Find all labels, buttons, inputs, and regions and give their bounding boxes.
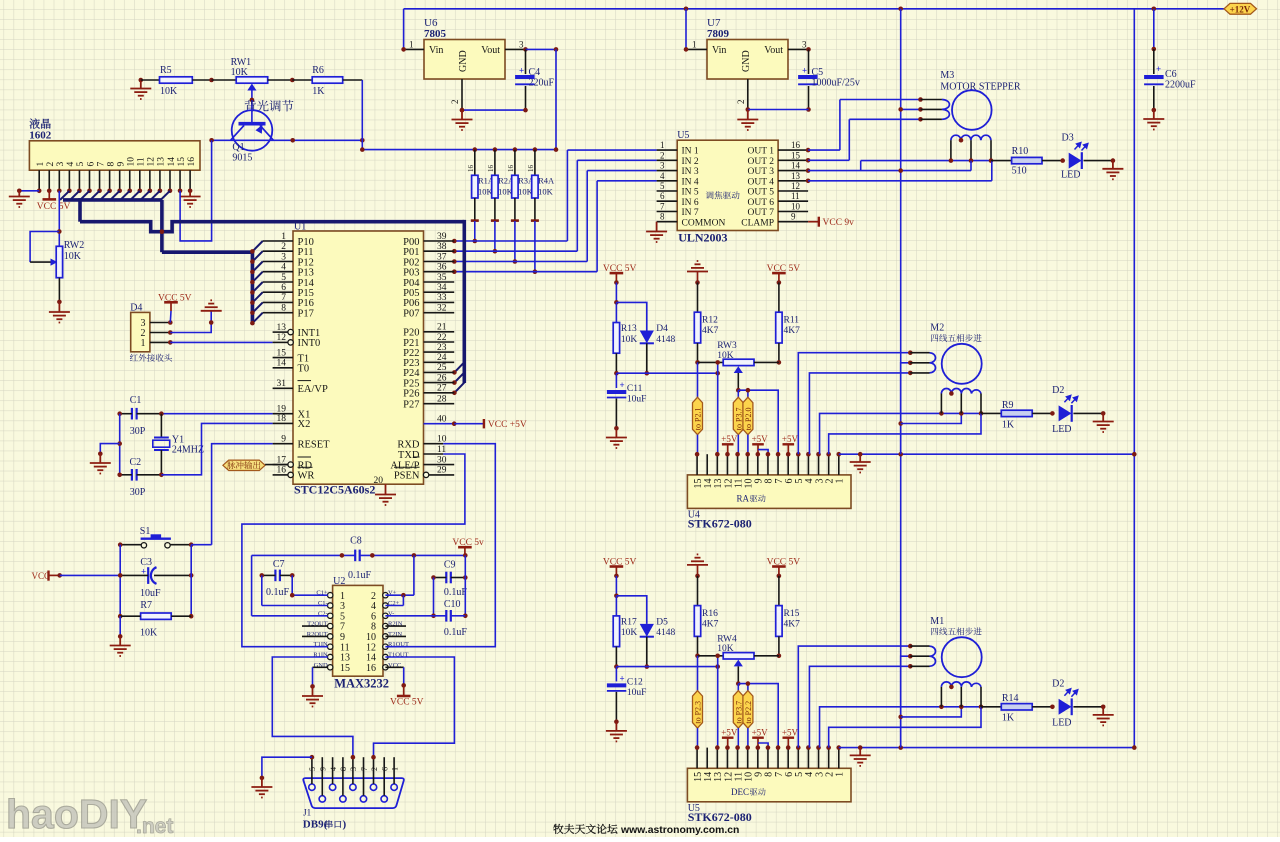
pin 11 U4 xyxy=(737,454,739,475)
svg-text:23: 23 xyxy=(437,343,447,353)
svg-text:6: 6 xyxy=(660,191,665,201)
svg-text:0.1uF: 0.1uF xyxy=(266,587,290,598)
svg-text:8: 8 xyxy=(339,767,348,771)
ground (inverted) above R16 xyxy=(687,554,708,565)
pin 2 U1 P11 xyxy=(263,250,293,252)
svg-text:Vout: Vout xyxy=(764,45,783,56)
svg-text:11: 11 xyxy=(791,191,800,201)
bus entry P1x xyxy=(252,313,262,323)
resistor R15 xyxy=(776,606,782,637)
svg-text:19: 19 xyxy=(277,405,287,415)
pin 5 U5 xyxy=(797,748,799,769)
svg-text:4K7: 4K7 xyxy=(702,620,719,630)
wire D4 pin1 to INT0 xyxy=(170,341,272,343)
coil M1 bottom xyxy=(941,682,981,687)
capacitor C4 xyxy=(525,49,527,74)
svg-text:14: 14 xyxy=(167,157,177,167)
svg-text:3: 3 xyxy=(660,161,665,171)
pin 15 U5 OUT 2 xyxy=(778,159,808,161)
ground D2 xyxy=(1102,707,1104,715)
pin 2 U2 V+ xyxy=(383,593,388,598)
wire pin2 riser xyxy=(829,413,981,454)
pin 4 U2 C2+ xyxy=(383,603,388,608)
svg-text:40: 40 xyxy=(437,415,447,425)
svg-text:4K7: 4K7 xyxy=(702,326,719,336)
pin 6 U1 P15 xyxy=(263,291,293,293)
svg-text:10K: 10K xyxy=(160,86,178,97)
junction dots OUT pins xyxy=(806,148,811,153)
svg-text:4: 4 xyxy=(329,767,338,771)
svg-text:11: 11 xyxy=(137,157,147,166)
flag 脉冲输出 RD xyxy=(223,460,265,470)
potentiometer RW1 xyxy=(212,79,237,81)
svg-text:R14: R14 xyxy=(1002,693,1019,704)
svg-text:10uF: 10uF xyxy=(627,688,647,698)
svg-text:C8: C8 xyxy=(350,536,362,547)
svg-text:C9: C9 xyxy=(444,560,456,571)
flag to P2.1 xyxy=(697,362,699,397)
resistor R14 xyxy=(981,706,1001,708)
svg-text:8: 8 xyxy=(281,304,286,314)
ground RW2 xyxy=(58,302,60,312)
wire C3 left leg xyxy=(119,545,121,617)
wire wiper branch to pin7 xyxy=(738,684,778,748)
wire P01 to IN2 xyxy=(577,159,656,161)
svg-text:7805: 7805 xyxy=(424,28,447,40)
pin 7 U2 T2OUT xyxy=(328,623,333,628)
pin 1 U6 xyxy=(404,48,424,50)
svg-text:+: + xyxy=(1156,64,1161,74)
pin 3 U6 xyxy=(505,48,526,50)
wire motor row2 common xyxy=(901,656,911,747)
pin 3 U5 xyxy=(818,748,820,769)
pin DB9 5 xyxy=(309,784,315,790)
ic U2 MAX3232 xyxy=(333,585,383,676)
ground pin1 xyxy=(859,748,861,755)
svg-text:1: 1 xyxy=(409,40,414,50)
pin 28 U1 P27 xyxy=(424,403,455,405)
svg-text:Vin: Vin xyxy=(429,45,443,56)
svg-text:32: 32 xyxy=(437,304,447,314)
svg-text:9: 9 xyxy=(319,767,328,771)
pin 11 U5 xyxy=(737,748,739,769)
pin 7 U4 xyxy=(777,454,779,475)
wire +12V long drop A (x=900.7) xyxy=(900,9,902,748)
svg-text:2: 2 xyxy=(46,162,56,167)
svg-text:8: 8 xyxy=(660,212,665,222)
svg-text:3: 3 xyxy=(519,40,524,50)
pin 13 U5 OUT 4 xyxy=(778,180,808,182)
pin 8 U5 xyxy=(767,748,769,769)
svg-text:16: 16 xyxy=(366,663,376,674)
wire C8 row (VCC net) xyxy=(252,554,356,556)
svg-text:1: 1 xyxy=(660,140,665,150)
wire +12V rail xyxy=(404,8,1224,10)
svg-text:LED: LED xyxy=(1052,717,1071,728)
flag to P2.0 xyxy=(747,390,749,397)
svg-text:+: + xyxy=(620,380,625,390)
svg-text:30: 30 xyxy=(437,455,447,465)
svg-text:6: 6 xyxy=(381,767,390,771)
svg-text:RA: RA xyxy=(736,494,749,504)
watermark haoDIY xyxy=(6,791,173,838)
LED D2 xyxy=(1059,699,1072,715)
ground crystal xyxy=(100,444,119,454)
svg-text:10uF: 10uF xyxy=(140,588,161,599)
wire pin1 to +12V rail xyxy=(839,747,1135,749)
svg-text:16: 16 xyxy=(527,165,535,173)
svg-text:0.1uF: 0.1uF xyxy=(444,587,468,598)
LED D2 xyxy=(1059,405,1072,421)
svg-text:0.1uF: 0.1uF xyxy=(348,570,372,581)
pin 37 U1 P02 xyxy=(424,261,455,263)
driver U5 ULN2003 xyxy=(677,140,778,230)
svg-text:21: 21 xyxy=(437,323,447,333)
pin 8 U2 R2IN xyxy=(383,623,388,628)
svg-text:R12: R12 xyxy=(702,316,718,326)
wire sense row xyxy=(616,666,717,668)
svg-text:T0: T0 xyxy=(298,364,310,375)
svg-text:D5: D5 xyxy=(656,618,668,628)
svg-text:INT0: INT0 xyxy=(298,338,321,349)
svg-text:TXD: TXD xyxy=(398,450,420,461)
svg-text:M1: M1 xyxy=(930,616,944,627)
svg-text:30P: 30P xyxy=(130,426,146,437)
pin 14 U5 xyxy=(706,748,708,769)
svg-text:P27: P27 xyxy=(403,400,419,411)
wire X2 route xyxy=(161,423,272,474)
svg-text:COMMON: COMMON xyxy=(682,218,726,228)
svg-text:9: 9 xyxy=(791,212,796,222)
svg-text:36: 36 xyxy=(437,263,447,273)
pin 14 U2 T1OUT xyxy=(383,654,388,659)
svg-text:6: 6 xyxy=(86,162,96,167)
svg-text:STK672-080: STK672-080 xyxy=(688,810,752,824)
wire pin3 riser coil row xyxy=(820,413,942,454)
svg-text:P17: P17 xyxy=(298,309,314,320)
svg-text:3: 3 xyxy=(56,162,66,167)
wire pin5 riser row1 xyxy=(798,646,910,748)
pin 2 D4 xyxy=(150,332,170,334)
svg-text:1K: 1K xyxy=(1002,419,1015,430)
svg-text:16: 16 xyxy=(187,157,197,167)
svg-text:ULN2003: ULN2003 xyxy=(678,231,727,245)
svg-text:OUT 4: OUT 4 xyxy=(748,177,775,187)
wire pin3 riser coil row xyxy=(820,707,942,748)
connector J1 DB9 xyxy=(303,778,404,808)
ground LCD pin16 xyxy=(189,191,191,196)
svg-text:R16: R16 xyxy=(702,609,718,619)
svg-text:35: 35 xyxy=(437,273,447,283)
wire wiper to flag P3.7 xyxy=(737,390,739,397)
svg-text:RW2: RW2 xyxy=(64,240,85,251)
svg-text:5: 5 xyxy=(281,273,286,283)
bus V4 left fan xyxy=(251,251,255,324)
pin 13 U2 R1IN xyxy=(328,654,333,659)
power VCC 9v pin9 xyxy=(808,221,819,223)
svg-text:+5V: +5V xyxy=(721,434,738,444)
svg-text:OUT 2: OUT 2 xyxy=(748,157,775,167)
svg-text:to P2.0: to P2.0 xyxy=(744,408,753,431)
svg-text:10K: 10K xyxy=(538,187,554,197)
wire pin8 hook xyxy=(758,450,768,455)
pin 2 U6 xyxy=(461,79,463,110)
overline RD xyxy=(298,456,312,458)
pin 15 U4 xyxy=(696,454,698,475)
resistor R2A xyxy=(493,147,498,152)
svg-text:33: 33 xyxy=(437,293,447,303)
pin 10 U1 RXD xyxy=(424,443,444,445)
pin 5 U4 xyxy=(797,454,799,475)
pin 7 U5 IN 7 xyxy=(657,211,678,213)
diode D4 4148 xyxy=(616,302,646,330)
wire pin4 riser row3 xyxy=(809,666,910,747)
bus C horizontal xyxy=(162,250,253,254)
svg-text:3: 3 xyxy=(281,252,286,262)
coil M1 bumps xyxy=(930,646,936,666)
svg-text:13: 13 xyxy=(277,323,287,333)
wire pin6 row C10 xyxy=(385,615,446,617)
pin 1 U7 xyxy=(686,48,707,50)
transistor Q1 9015 xyxy=(232,110,273,151)
svg-text:IN 4: IN 4 xyxy=(682,177,699,187)
wire C8row to pin5 xyxy=(251,555,253,615)
resistor R10 xyxy=(991,160,1012,162)
pin 10 U2 T2IN xyxy=(383,634,388,639)
wire sense row xyxy=(616,372,717,374)
pin 16 U5 OUT 1 xyxy=(778,149,808,151)
wire motor row2 common xyxy=(901,363,911,454)
pin 3 U5 IN 3 xyxy=(657,170,678,172)
pin DB9 9 xyxy=(319,796,325,802)
svg-text:+5V: +5V xyxy=(752,434,769,444)
wire R1A to P00 xyxy=(474,221,476,241)
svg-text:14: 14 xyxy=(277,359,287,369)
ground DB9 xyxy=(261,778,263,787)
wire TXD route xyxy=(242,454,465,647)
bus V2 right xyxy=(462,220,466,383)
pin DB9 8 xyxy=(340,796,346,802)
svg-text:1: 1 xyxy=(390,767,399,771)
svg-text:Vout: Vout xyxy=(481,45,500,56)
bus entry P1x xyxy=(252,282,262,292)
svg-text:STC12C5A60s2: STC12C5A60s2 xyxy=(294,483,375,497)
pin 2 U5 IN 2 xyxy=(657,159,678,161)
pin 27 U1 P26 xyxy=(424,392,455,394)
bus entry P2x xyxy=(454,362,464,372)
svg-text:10K: 10K xyxy=(621,628,638,638)
svg-text:34: 34 xyxy=(437,283,447,293)
svg-text:+: + xyxy=(802,66,807,76)
svg-text:20: 20 xyxy=(374,476,384,486)
bus entry P2x xyxy=(454,383,464,393)
svg-text:VCC 5V: VCC 5V xyxy=(37,202,71,212)
pin 31 U1 EA/VP xyxy=(273,387,293,389)
wire T1OUT to DB9 pin2 xyxy=(374,657,455,757)
pin DB9 1 xyxy=(391,784,397,790)
resistor R5 xyxy=(141,79,160,81)
pin 40 U1 xyxy=(424,423,455,425)
potentiometer RW2 xyxy=(30,232,59,263)
pin 17 U1 RD xyxy=(273,464,289,466)
pin 24 U1 P23 xyxy=(424,361,455,363)
svg-text:C4: C4 xyxy=(529,67,541,78)
wire C6 branch xyxy=(1153,9,1155,49)
wire DB9 pin5 gnd xyxy=(262,757,312,778)
svg-text:37: 37 xyxy=(437,252,447,262)
svg-text:2: 2 xyxy=(450,100,460,105)
svg-text:16: 16 xyxy=(507,165,515,173)
LED D3 xyxy=(1069,153,1082,169)
pin 8 U5 COMMON xyxy=(657,221,678,223)
svg-text:IN 1: IN 1 xyxy=(682,147,699,157)
pin DB9 2 xyxy=(370,784,376,790)
power VCC 5V LCD pin2 xyxy=(48,191,50,200)
bus V1 xyxy=(78,198,82,222)
svg-text:LED: LED xyxy=(1052,424,1071,435)
svg-text:+: + xyxy=(519,66,524,76)
svg-text:10K: 10K xyxy=(621,335,638,345)
pin 10 U4 xyxy=(747,454,749,475)
svg-text:U5: U5 xyxy=(677,130,689,141)
svg-text:7809: 7809 xyxy=(707,28,730,40)
wire C4 to gnd row xyxy=(462,109,526,111)
label backlight xyxy=(245,100,294,112)
pin 16 U2 VCC xyxy=(383,665,388,670)
svg-text:22: 22 xyxy=(437,333,447,343)
svg-text:IN 7: IN 7 xyxy=(682,208,699,218)
resistor R6 xyxy=(292,79,312,81)
svg-text:R13: R13 xyxy=(621,324,637,334)
pin 5 U1 P14 xyxy=(263,281,293,283)
wire U6 input drop xyxy=(403,9,405,50)
wire pin5 riser row1 xyxy=(798,353,910,455)
pin 7 U1 P16 xyxy=(263,301,293,303)
pin DB9 7 xyxy=(360,796,366,802)
wire OUT1 riser xyxy=(839,100,841,151)
overline EA xyxy=(298,380,312,382)
wire R6 drop xyxy=(361,80,363,150)
pin 6 U4 xyxy=(787,454,789,475)
pin 2 U4 xyxy=(828,454,830,475)
pin 36 U1 P03 xyxy=(424,271,455,273)
resistor R17 xyxy=(613,616,619,647)
overline WR xyxy=(298,466,313,468)
svg-text:0.1uF: 0.1uF xyxy=(444,627,468,638)
svg-text:2200uF: 2200uF xyxy=(1165,80,1196,91)
svg-text:+5V: +5V xyxy=(721,727,738,737)
wire LCD pin15 backlight xyxy=(180,140,212,241)
diode D5 4148 xyxy=(616,596,646,624)
svg-text:GND: GND xyxy=(458,50,469,72)
pin 16 U1 WR xyxy=(273,474,289,476)
wire middle leg tap xyxy=(901,707,962,717)
wire P02 to IN3 xyxy=(587,170,656,172)
svg-text:C11: C11 xyxy=(627,384,643,394)
svg-text:R5: R5 xyxy=(160,65,172,76)
resistor R4A xyxy=(533,147,538,152)
pin 2 U5 xyxy=(828,748,830,769)
svg-text:IN 3: IN 3 xyxy=(682,167,699,177)
svg-text:OUT 7: OUT 7 xyxy=(748,208,775,218)
svg-text:Q1: Q1 xyxy=(232,142,244,153)
svg-text:MOTOR STEPPER: MOTOR STEPPER xyxy=(940,82,1020,93)
wire S1 to RESET riser xyxy=(191,544,211,546)
svg-text:3: 3 xyxy=(349,767,358,771)
wire M3 row1 xyxy=(840,99,921,101)
pin 3 U2 C1- xyxy=(328,603,333,608)
pin 15 U2 GND xyxy=(328,665,333,670)
wire C1-C2 left leg xyxy=(119,414,121,475)
coil M2 bottom xyxy=(941,389,981,394)
svg-text:J1: J1 xyxy=(303,808,311,818)
flag to P2.3 xyxy=(697,656,699,691)
svg-text:3: 3 xyxy=(802,40,807,50)
svg-text:10K: 10K xyxy=(231,67,249,78)
svg-text:15: 15 xyxy=(791,150,801,160)
ground R5 left xyxy=(139,78,144,83)
svg-text:4: 4 xyxy=(66,162,76,167)
pin 23 U1 P22 xyxy=(424,351,455,353)
svg-text:12: 12 xyxy=(277,333,287,343)
svg-text:OUT 3: OUT 3 xyxy=(748,167,775,177)
driver U4 STK672-080 xyxy=(687,475,851,509)
svg-text:RW3: RW3 xyxy=(717,341,737,351)
svg-text:4K7: 4K7 xyxy=(784,620,801,630)
pin DB9 4 xyxy=(329,784,335,790)
svg-text:RESET: RESET xyxy=(298,440,331,451)
pin 3 U4 xyxy=(818,454,820,475)
pin 13 U1 INT1 xyxy=(273,331,289,333)
pin 19 U1 X1 xyxy=(273,413,293,415)
svg-text:C2: C2 xyxy=(130,457,142,468)
svg-text:1K: 1K xyxy=(1002,713,1015,724)
pin 1 U1 P10 xyxy=(263,240,293,242)
wire C7 to pin1/pin3 xyxy=(291,575,293,595)
connector LCD 1602 xyxy=(30,118,51,128)
svg-text:VCC: VCC xyxy=(32,571,51,581)
ground COMMON U5 xyxy=(656,222,658,231)
T2OUT R2OUT stubs xyxy=(302,625,328,627)
ground U2 xyxy=(312,686,314,695)
svg-text:7: 7 xyxy=(360,767,369,771)
svg-text:7: 7 xyxy=(660,202,665,212)
svg-text:.net: .net xyxy=(136,815,173,837)
pin 15 U1 T1 xyxy=(273,357,293,359)
svg-text:5: 5 xyxy=(76,162,86,167)
pin 1 U4 xyxy=(838,454,840,475)
svg-text:M2: M2 xyxy=(930,323,944,334)
capacitor C5 xyxy=(808,49,810,74)
svg-text:U1: U1 xyxy=(294,222,306,233)
svg-text:15: 15 xyxy=(277,348,287,358)
overline PSEN xyxy=(394,466,420,468)
regulator U7 7809 xyxy=(707,40,788,80)
pin 10 U5 xyxy=(747,748,749,769)
svg-text:D4: D4 xyxy=(656,324,668,334)
svg-text:D2: D2 xyxy=(1052,679,1064,690)
pin 11 U1 TXD xyxy=(424,453,444,455)
wire RW row to pin13 xyxy=(717,362,719,454)
svg-text:PSEN: PSEN xyxy=(394,471,420,482)
svg-text:DEC: DEC xyxy=(731,787,749,797)
pin 12 U1 INT0 xyxy=(273,341,289,343)
svg-text:4: 4 xyxy=(281,263,286,273)
ground C12 xyxy=(615,722,617,731)
svg-text:10uF: 10uF xyxy=(627,395,647,405)
pin 8 U4 xyxy=(767,454,769,475)
ground (inverted) above R12 xyxy=(687,261,708,272)
